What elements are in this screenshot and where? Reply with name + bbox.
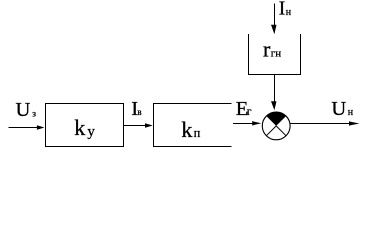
svg-text:н: н <box>348 107 354 118</box>
svg-text:гн: гн <box>271 48 282 60</box>
label ky <box>74 115 95 140</box>
wire: rgn down to summer <box>274 75 276 103</box>
node label Iv <box>131 98 141 120</box>
summing junction circle <box>262 112 290 140</box>
block kp (open right side) <box>154 104 232 147</box>
svg-text:н: н <box>286 7 292 18</box>
node label Uz <box>16 99 37 121</box>
node label In <box>279 0 292 20</box>
wire: Eg arrow kp to summer <box>233 121 261 126</box>
summing junction lower-left diagonal <box>266 126 276 136</box>
node label Un <box>331 98 353 120</box>
wire: Iv arrow ky to kp <box>124 123 153 128</box>
svg-text:U: U <box>16 99 31 121</box>
summing junction lower-right diagonal <box>276 126 286 136</box>
svg-text:г: г <box>247 106 252 118</box>
block ky <box>46 104 124 147</box>
label kp <box>181 117 200 142</box>
wire: In arrow from top into rgn <box>271 4 277 35</box>
svg-text:з: з <box>32 110 36 120</box>
svg-text:у: у <box>87 124 95 140</box>
svg-text:k: k <box>181 117 192 142</box>
svg-text:I: I <box>279 0 286 20</box>
wire: output arrow Un <box>291 121 360 126</box>
svg-text:в: в <box>137 107 141 117</box>
label rgn <box>263 37 281 62</box>
block rgn (open top) <box>249 34 301 75</box>
node label Eg <box>236 98 252 120</box>
svg-text:k: k <box>74 115 85 140</box>
svg-text:r: r <box>263 37 271 62</box>
arrowhead into summer top <box>271 101 277 110</box>
svg-text:U: U <box>331 98 346 120</box>
wire: input arrow into ky <box>9 125 45 130</box>
svg-text:п: п <box>194 126 201 140</box>
summing junction filled top sector <box>266 112 286 126</box>
